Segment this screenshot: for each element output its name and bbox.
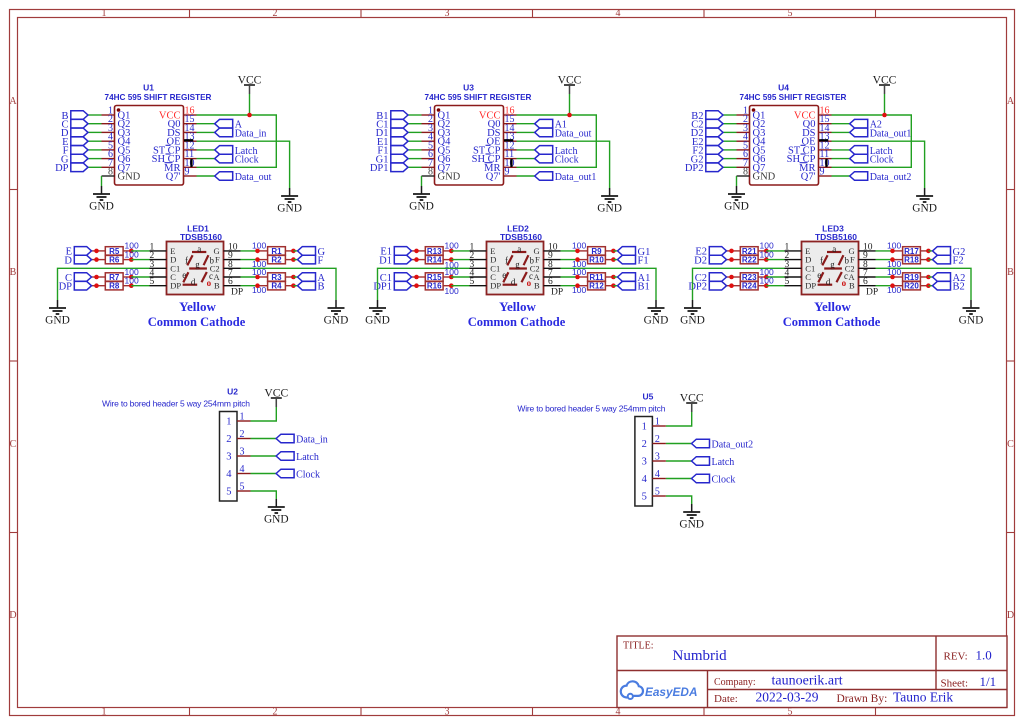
svg-text:1: 1 <box>102 8 107 19</box>
wire VCC stem <box>569 94 571 115</box>
wire net B2 to pin 1 of U4 <box>723 114 737 116</box>
svg-text:Data_out1: Data_out1 <box>555 172 597 183</box>
wire pin 9 of U3 to port Data_out1 <box>517 175 535 177</box>
wire R8 to display pin <box>131 285 149 287</box>
display pin 4 (C) of LED1 <box>150 269 177 283</box>
net port Data_out2 <box>692 439 754 450</box>
wire pin 1 of U2 to VCC <box>251 399 277 421</box>
VCC power symbol at U2 <box>264 387 288 408</box>
wire display pin to resistor R3 <box>241 276 258 278</box>
net flag DP1 <box>370 163 408 174</box>
net port A1 <box>535 119 567 130</box>
resistor R5 100 ohm <box>92 247 132 256</box>
pin 13 (OE) of U3 <box>487 132 517 148</box>
wire C2 of LED3 to ground <box>876 268 972 300</box>
pin 16 (VCC) of U3 <box>479 106 517 122</box>
wire pin 3 of U2 to port Latch <box>251 455 277 457</box>
resistor R18 100 ohm <box>893 255 929 264</box>
active-low bar on pin 13 of U4 <box>819 139 828 141</box>
pin 5 of U2 <box>226 482 250 498</box>
svg-text:100: 100 <box>887 241 901 251</box>
svg-text:R12: R12 <box>589 282 604 291</box>
net port Latch <box>215 146 258 157</box>
svg-text:GND: GND <box>365 315 390 327</box>
svg-text:TDSB5160: TDSB5160 <box>180 232 222 242</box>
svg-text:6: 6 <box>548 277 553 287</box>
svg-text:DP: DP <box>551 288 563 298</box>
wire VCC stem <box>884 94 886 115</box>
wire pin 1 of U5 to VCC <box>666 404 692 426</box>
wire OE pin 13 of U3 to ground <box>517 141 610 188</box>
svg-text:Tauno Erik: Tauno Erik <box>893 690 953 705</box>
ground at LED2 C1 <box>365 300 390 327</box>
svg-text:DP: DP <box>55 163 69 174</box>
wire net G to pin 6 of U1 <box>88 158 102 160</box>
7-segment display LED1 TDSB5160 <box>167 224 224 295</box>
wire display pin to resistor R19 <box>876 276 893 278</box>
display pin 4 (C) of LED3 <box>785 269 812 283</box>
svg-text:DP1: DP1 <box>373 282 392 293</box>
svg-text:GND: GND <box>959 315 984 327</box>
svg-text:R1: R1 <box>271 247 282 256</box>
junction dots at R4 <box>255 283 260 288</box>
pin 14 (DS) of U1 <box>167 123 196 139</box>
wire R3 to net flag <box>293 276 297 278</box>
net port Data_out <box>215 172 272 183</box>
resistor R16 100 ohm <box>412 282 452 291</box>
svg-text:B: B <box>534 281 540 291</box>
resistor R17 100 ohm <box>893 247 929 256</box>
svg-text:g: g <box>830 260 835 270</box>
svg-text:1/1: 1/1 <box>980 674 997 689</box>
net flag DP2 <box>685 163 723 174</box>
svg-text:Clock: Clock <box>235 155 259 166</box>
pin 7 (Q7) of U4 <box>737 158 766 174</box>
wire R6 to display pin <box>131 259 149 261</box>
net port Data_out <box>535 128 592 139</box>
svg-text:a: a <box>517 244 521 254</box>
pin 15 (Q0) of U1 <box>168 114 197 130</box>
pin 15 (Q0) of U4 <box>803 114 832 130</box>
svg-text:Yellow: Yellow <box>814 299 851 314</box>
wire display pin to resistor R12 <box>561 285 578 287</box>
pin 2 (Q2) of U1 <box>102 114 131 130</box>
net flag G1 <box>618 247 651 258</box>
pin 4 (Q4) of U1 <box>102 132 132 148</box>
pin 2 of U2 <box>226 429 250 445</box>
IC U4 74HC595 shift register <box>740 83 847 186</box>
junction dots at R11 <box>575 275 580 280</box>
net flag C2 <box>695 273 727 284</box>
wire pin 14 of U3 to port Data_out <box>517 131 535 133</box>
net flag E2 <box>692 137 723 148</box>
net flag B2 <box>933 281 965 292</box>
wire pin 4 of U2 to port Clock <box>251 473 277 475</box>
ground at U1 OE <box>277 188 302 215</box>
ground at U3 OE <box>597 188 622 215</box>
wire display pin to resistor R17 <box>876 250 893 252</box>
wire pin 9 of U1 to port Data_out <box>197 175 215 177</box>
net port Data_out2 <box>850 172 912 183</box>
pin 14 (DS) of U4 <box>802 123 831 139</box>
wire net B to pin 1 of U1 <box>88 114 102 116</box>
svg-text:DP: DP <box>59 282 73 293</box>
pin 2 (Q2) of U4 <box>737 114 766 130</box>
svg-text:Common Cathode: Common Cathode <box>468 315 566 329</box>
wire R14 to display pin <box>451 259 469 261</box>
svg-text:GND: GND <box>118 172 141 183</box>
net flag G <box>298 247 326 258</box>
ground at U2 <box>264 499 289 526</box>
svg-text:R16: R16 <box>427 282 442 291</box>
svg-text:4: 4 <box>655 469 660 480</box>
svg-text:6: 6 <box>228 277 233 287</box>
svg-text:a: a <box>197 244 201 254</box>
net flag B <box>298 281 325 292</box>
junction dots at R9 <box>575 249 580 254</box>
display pin 9 (F) of LED2 <box>535 251 561 265</box>
connector header U5 5-way <box>517 392 665 507</box>
resistor R13 100 ohm <box>412 247 452 256</box>
svg-text:GND: GND <box>409 201 434 213</box>
pin 6 (Q6) of U1 <box>102 149 131 165</box>
junction dots at R14 <box>414 257 419 262</box>
svg-text:R2: R2 <box>271 256 282 265</box>
wire net DP1 to pin 7 of U3 <box>408 166 422 168</box>
svg-text:f: f <box>505 255 508 265</box>
svg-text:VCC: VCC <box>558 74 582 87</box>
svg-text:9: 9 <box>185 167 190 178</box>
svg-text:e: e <box>817 270 821 280</box>
resistor R21 100 ohm <box>727 247 767 256</box>
net flag D <box>61 128 88 139</box>
wire VCC net: pin 16 of U1 to MR pin 10 <box>197 115 277 167</box>
net flag DP1 <box>373 281 411 292</box>
net flag D <box>64 255 91 266</box>
pin 10 (MR) of U4 <box>799 158 831 174</box>
display pin 3 (C1) of LED2 <box>470 260 501 274</box>
resistor R9 100 ohm <box>578 247 614 256</box>
display pin 7 (A) of LED1 <box>214 269 241 283</box>
svg-text:o: o <box>842 278 847 288</box>
pin 8 (GND) of U4 <box>737 167 776 183</box>
svg-text:R19: R19 <box>904 273 919 282</box>
svg-text:A: A <box>9 96 17 107</box>
net flag B2 <box>691 111 723 122</box>
svg-text:VCC: VCC <box>264 387 288 400</box>
junction dots at R13 <box>414 249 419 254</box>
wire R18 to net flag <box>928 259 932 261</box>
junction dots at R2 <box>255 257 260 262</box>
resistor R7 100 ohm <box>92 273 132 282</box>
svg-text:U5: U5 <box>642 392 653 402</box>
svg-text:D1: D1 <box>379 255 392 266</box>
wire R22 to display pin <box>766 259 784 261</box>
net port Clock <box>850 154 894 165</box>
display pin 4 (C) of LED2 <box>470 269 497 283</box>
net flag DP2 <box>688 281 726 292</box>
pin 4 (Q4) of U3 <box>422 132 452 148</box>
wire display pin to resistor R18 <box>876 259 893 261</box>
resistor R1 100 ohm <box>258 247 294 256</box>
net flag E2 <box>695 247 726 258</box>
display pin 7 (A) of LED3 <box>849 269 876 283</box>
svg-text:R20: R20 <box>904 282 919 291</box>
display pin 2 (D) of LED2 <box>470 251 497 265</box>
net port Clock <box>215 154 259 165</box>
svg-text:R14: R14 <box>427 256 442 265</box>
wire display pin to resistor R4 <box>241 285 258 287</box>
ground at U4 pin 8 <box>724 186 749 213</box>
wire R17 to net flag <box>928 250 932 252</box>
wire OE pin 13 of U4 to ground <box>832 141 925 188</box>
pin 16 (VCC) of U4 <box>794 106 832 122</box>
pin 1 (Q1) of U3 <box>422 106 451 122</box>
svg-text:GND: GND <box>264 514 289 526</box>
svg-text:8: 8 <box>743 167 748 178</box>
svg-text:F: F <box>318 256 324 267</box>
svg-text:2: 2 <box>642 439 647 450</box>
wire pin 14 of U1 to port Data_in <box>197 131 215 133</box>
svg-text:Data_out2: Data_out2 <box>870 172 912 183</box>
svg-text:R11: R11 <box>589 273 604 282</box>
resistor R23 100 ohm <box>727 273 767 282</box>
pin 7 (Q7) of U3 <box>422 158 451 174</box>
resistor R24 100 ohm <box>727 282 767 291</box>
svg-text:GND: GND <box>45 315 70 327</box>
svg-text:5: 5 <box>150 277 155 287</box>
wire C2 of LED2 to ground <box>561 268 657 300</box>
junction dots at R17 <box>890 249 895 254</box>
svg-text:R4: R4 <box>271 282 282 291</box>
wire net G2 to pin 6 of U4 <box>723 158 737 160</box>
svg-text:taunoerik.art: taunoerik.art <box>772 674 843 689</box>
svg-text:D: D <box>9 610 16 621</box>
svg-text:d: d <box>826 277 831 287</box>
junction dots at R20 <box>890 283 895 288</box>
display pin 1 (E) of LED1 <box>150 242 176 256</box>
svg-text:Drawn By:: Drawn By: <box>837 693 888 705</box>
svg-text:R24: R24 <box>742 282 757 291</box>
display pin 8 (C2) of LED3 <box>845 260 876 274</box>
svg-text:1: 1 <box>240 412 245 423</box>
svg-text:e: e <box>182 270 186 280</box>
wire pin 12 of U4 to port Latch <box>832 149 850 151</box>
wire display pin to resistor R9 <box>561 250 578 252</box>
pin 11 (SH_CP) of U4 <box>787 149 832 165</box>
junction dots at R5 <box>94 249 99 254</box>
resistor R3 100 ohm <box>258 273 294 282</box>
pin 1 (Q1) of U1 <box>102 106 131 122</box>
pin 1 of U2 <box>226 412 250 428</box>
net flag E <box>66 247 92 258</box>
svg-text:Q7': Q7' <box>801 172 816 183</box>
net port Latch <box>692 457 735 468</box>
wire net C2 to pin 2 of U4 <box>723 123 737 125</box>
display pin 5 (DP) of LED1 <box>150 277 182 291</box>
svg-text:DP: DP <box>170 281 181 291</box>
net port Clock <box>692 474 736 485</box>
svg-text:1: 1 <box>655 417 660 428</box>
label Yellow Common Cathode for LED3 <box>783 299 881 329</box>
VCC power symbol at U5 <box>680 392 704 413</box>
svg-text:g: g <box>515 260 520 270</box>
pin 12 (ST_CP) of U4 <box>788 140 832 156</box>
wire R7 to display pin <box>131 276 149 278</box>
svg-text:R21: R21 <box>742 247 757 256</box>
svg-text:VCC: VCC <box>680 392 704 405</box>
svg-text:VCC: VCC <box>873 74 897 87</box>
7-segment digit graphic of LED2 <box>502 244 534 288</box>
svg-text:74HC 595 SHIFT REGISTER: 74HC 595 SHIFT REGISTER <box>105 93 212 102</box>
svg-text:D: D <box>1007 610 1014 621</box>
svg-text:d: d <box>511 277 516 287</box>
wire net E1 to pin 4 of U3 <box>408 140 422 142</box>
net flag A1 <box>618 273 651 284</box>
junction dots at R12 <box>575 283 580 288</box>
svg-text:F2: F2 <box>953 256 964 267</box>
svg-text:100: 100 <box>252 241 266 251</box>
junction dot VCC <box>567 113 572 118</box>
svg-text:R8: R8 <box>109 282 120 291</box>
svg-text:4: 4 <box>616 8 621 19</box>
svg-text:GND: GND <box>597 203 622 215</box>
wire R16 to display pin <box>451 285 469 287</box>
svg-text:f: f <box>820 255 823 265</box>
ground at LED2 C2 <box>644 300 669 327</box>
net flag G2 <box>933 247 966 258</box>
resistor R12 100 ohm <box>578 282 614 291</box>
svg-text:100: 100 <box>572 241 586 251</box>
svg-text:B: B <box>318 282 325 293</box>
svg-text:U4: U4 <box>778 83 789 93</box>
svg-text:5: 5 <box>642 492 647 503</box>
pin 5 of U5 <box>642 487 666 503</box>
svg-text:f: f <box>185 255 188 265</box>
net port A <box>215 119 243 130</box>
svg-text:8: 8 <box>428 167 433 178</box>
svg-text:B: B <box>214 281 220 291</box>
svg-text:DP: DP <box>490 281 501 291</box>
svg-text:4: 4 <box>240 464 245 475</box>
net flag C1 <box>380 273 412 284</box>
wire R20 to net flag <box>928 285 932 287</box>
resistor R4 100 ohm <box>258 282 294 291</box>
svg-text:a: a <box>832 244 836 254</box>
label Yellow Common Cathode for LED1 <box>148 299 246 329</box>
net flag F1 <box>377 146 408 157</box>
pin 3 (Q3) of U1 <box>102 123 131 139</box>
svg-text:B2: B2 <box>953 282 965 293</box>
wire net F1 to pin 5 of U3 <box>408 149 422 151</box>
svg-text:R17: R17 <box>904 247 919 256</box>
pin 16 (VCC) of U1 <box>159 106 197 122</box>
junction dots at R19 <box>890 275 895 280</box>
svg-text:Data_out: Data_out <box>235 172 272 183</box>
net flag D1 <box>376 128 408 139</box>
resistor R10 100 ohm <box>578 255 614 264</box>
svg-text:GND: GND <box>753 172 776 183</box>
svg-text:Wire to bored header 5 way 254: Wire to bored header 5 way 254mm pitch <box>102 399 250 409</box>
pin 2 of U5 <box>642 434 666 450</box>
pin 6 (Q6) of U3 <box>422 149 451 165</box>
display pin 8 (C2) of LED2 <box>530 260 561 274</box>
svg-text:B: B <box>10 267 17 278</box>
svg-text:1: 1 <box>102 707 107 718</box>
net flag C <box>65 273 92 284</box>
pin 6 (Q6) of U4 <box>737 149 766 165</box>
junction dot VCC <box>882 113 887 118</box>
svg-text:D2: D2 <box>694 255 707 266</box>
pin 4 of U2 <box>226 464 250 480</box>
svg-text:R23: R23 <box>742 273 757 282</box>
7-segment digit graphic of LED1 <box>182 244 214 288</box>
wire C1 of LED3 to ground <box>693 268 785 300</box>
active-low bar on pin 10 of U3 <box>510 159 512 167</box>
display pin 2 (D) of LED1 <box>150 251 177 265</box>
wire net E to pin 4 of U1 <box>88 140 102 142</box>
svg-text:R22: R22 <box>742 256 757 265</box>
svg-text:2: 2 <box>273 8 278 19</box>
svg-text:3: 3 <box>226 452 231 463</box>
svg-text:EasyEDA: EasyEDA <box>645 685 697 699</box>
wire VCC stem <box>249 94 251 115</box>
ground at U5 <box>679 504 704 531</box>
display pin 5 (DP) of LED2 <box>470 277 502 291</box>
net flag F1 <box>618 255 649 266</box>
svg-text:Yellow: Yellow <box>179 299 216 314</box>
wire R1 to net flag <box>293 250 297 252</box>
junction dots at R6 <box>94 257 99 262</box>
svg-text:5: 5 <box>655 487 660 498</box>
svg-text:Common Cathode: Common Cathode <box>783 315 881 329</box>
net flag B1 <box>618 281 650 292</box>
wire R21 to display pin <box>766 250 784 252</box>
net flag D1 <box>379 255 411 266</box>
svg-text:6: 6 <box>863 277 868 287</box>
svg-text:5: 5 <box>240 482 245 493</box>
svg-text:Date:: Date: <box>714 693 738 705</box>
wire R13 to display pin <box>451 250 469 252</box>
junction dots at R22 <box>729 257 734 262</box>
ground at U4 OE <box>912 188 937 215</box>
pin 3 of U2 <box>226 447 250 463</box>
svg-text:1: 1 <box>642 422 647 433</box>
svg-text:Data_out1: Data_out1 <box>870 128 912 139</box>
display pin 6 (B) of LED3 <box>849 277 875 291</box>
junction dots at R1 <box>255 249 260 254</box>
display pin 3 (C1) of LED1 <box>150 260 181 274</box>
ground at LED1 C1 <box>45 300 70 327</box>
wire OE pin 13 of U1 to ground <box>197 141 290 188</box>
net flag E <box>62 137 88 148</box>
wire pin 12 of U3 to port Latch <box>517 149 535 151</box>
svg-text:Company:: Company: <box>714 677 756 688</box>
wire display pin to resistor R1 <box>241 250 258 252</box>
svg-text:R6: R6 <box>109 256 120 265</box>
svg-text:R9: R9 <box>591 247 602 256</box>
svg-text:2022-03-29: 2022-03-29 <box>756 690 819 705</box>
junction dots at R23 <box>729 275 734 280</box>
wire net C1 to pin 2 of U3 <box>408 123 422 125</box>
svg-text:1: 1 <box>226 417 231 428</box>
resistor R11 100 ohm <box>578 273 614 282</box>
pin 12 (ST_CP) of U1 <box>153 140 197 156</box>
svg-text:Clock: Clock <box>712 475 736 486</box>
wire display pin to resistor R11 <box>561 276 578 278</box>
svg-text:3: 3 <box>445 8 450 19</box>
net flag A2 <box>933 273 966 284</box>
